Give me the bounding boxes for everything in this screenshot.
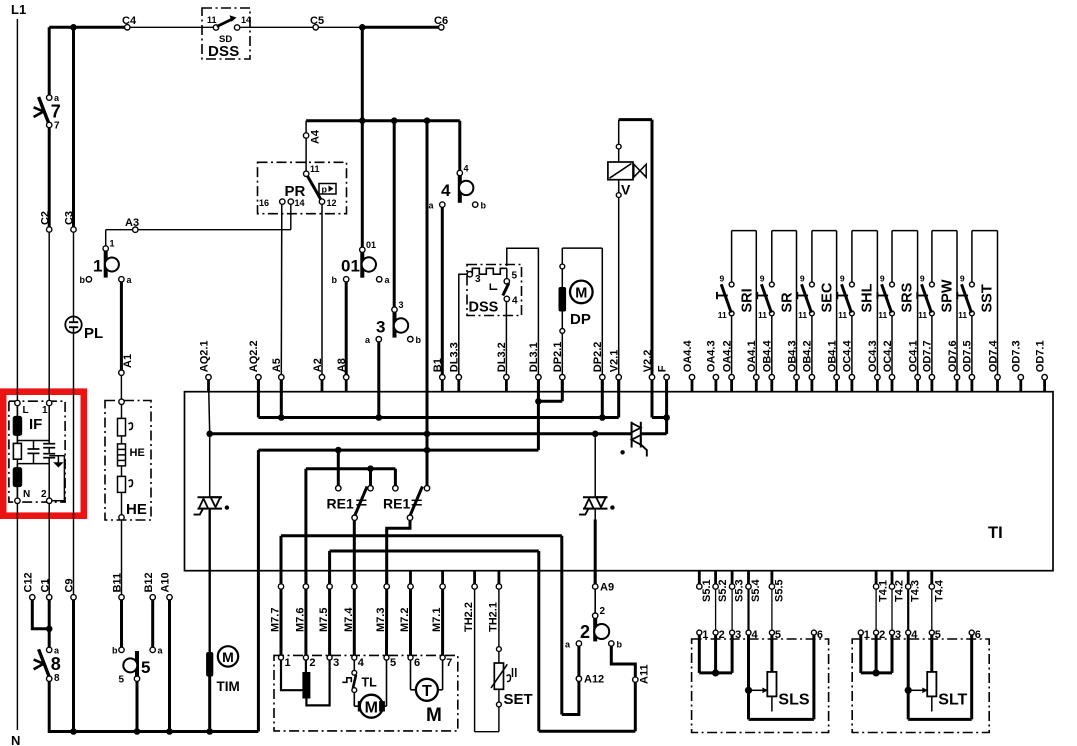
wire V2.1 drop	[617, 380, 620, 418]
svg-text:9: 9	[840, 274, 845, 284]
svg-text:5: 5	[390, 657, 396, 669]
junction SLT wiper	[905, 687, 912, 694]
node C3	[71, 227, 76, 232]
svg-text:A10: A10	[160, 572, 172, 592]
svg-text:9: 9	[720, 274, 725, 284]
svg-text:C4: C4	[122, 15, 137, 27]
svg-text:TI: TI	[988, 524, 1003, 542]
switch SPW	[917, 231, 957, 375]
svg-text:4: 4	[512, 296, 518, 307]
junction C/riser	[424, 447, 431, 454]
svg-text:SLT: SLT	[938, 692, 967, 709]
svg-text:OA4.4: OA4.4	[682, 340, 694, 373]
svg-text:DSS: DSS	[469, 300, 499, 316]
terminal OB4.2	[802, 340, 815, 391]
svg-text:b: b	[416, 335, 422, 345]
terminal DL3.1	[528, 342, 541, 391]
wire C5 riser	[361, 27, 364, 120]
svg-text:11: 11	[758, 310, 767, 320]
wire DSS1 to C5	[239, 26, 361, 28]
valve V	[608, 120, 652, 375]
wire M7.1 to pin7	[441, 589, 444, 655]
red annotation box	[3, 392, 84, 516]
svg-text:N: N	[23, 489, 30, 500]
terminal OD7.1	[1034, 340, 1047, 391]
svg-text:TL: TL	[362, 676, 378, 690]
svg-text:C5: C5	[310, 15, 324, 27]
svg-text:16: 16	[259, 198, 269, 208]
svg-text:b: b	[332, 275, 338, 285]
wire C1 column	[48, 600, 51, 648]
svg-text:9: 9	[920, 274, 925, 284]
SLT pin 6	[969, 629, 981, 641]
terminal V2.2	[642, 350, 655, 392]
wire D descender to switch2	[560, 536, 563, 715]
junction T/riser	[424, 117, 431, 124]
junction F/V2.2	[663, 414, 670, 421]
svg-text:b: b	[80, 275, 86, 285]
svg-text:1: 1	[110, 239, 115, 249]
wire switch01 b to A8	[345, 282, 348, 375]
terminal OD7.5	[962, 340, 975, 391]
wire PR12 to A2	[321, 204, 323, 375]
wire top feed C2-C4	[49, 26, 128, 29]
filter IF	[9, 400, 65, 503]
svg-text:3: 3	[376, 318, 385, 337]
M box pin 6	[408, 655, 420, 669]
wire switch2 a to A12	[577, 646, 580, 676]
terminal DL3.3	[449, 342, 462, 391]
wire D (M7.7 rail)	[281, 536, 562, 584]
svg-text:b: b	[617, 640, 623, 650]
terminal M7.1	[431, 571, 445, 632]
svg-text:T: T	[422, 683, 432, 700]
svg-text:T4.1: T4.1	[878, 580, 890, 602]
svg-text:DP: DP	[570, 311, 591, 328]
svg-text:PL: PL	[84, 325, 103, 342]
terminal OD7.7	[922, 340, 935, 391]
terminal TH2.2	[463, 571, 477, 632]
svg-text:OD7.3: OD7.3	[1011, 340, 1023, 372]
svg-text:F: F	[656, 365, 668, 372]
junction bus switch5	[134, 728, 141, 735]
wire riser to switch 01	[361, 121, 364, 248]
junction SLS bus	[712, 669, 719, 676]
terminal V2.1	[609, 350, 622, 392]
potentiometer SLS	[767, 635, 810, 712]
junction top C3	[70, 24, 77, 31]
junction DP2.1/DL3.1	[535, 398, 542, 405]
wire C3 to PL	[73, 232, 75, 322]
svg-text:2: 2	[41, 489, 47, 500]
wire G (M7.5 rail)	[330, 551, 539, 584]
wire C3 column upper	[72, 27, 75, 227]
SLT wiper arrow	[911, 688, 928, 694]
terminal S5.1	[697, 571, 713, 602]
terminal OB4.1	[826, 340, 839, 391]
junction bus A10	[166, 728, 173, 735]
wire DSS2 pin3 to DL3.3	[459, 274, 468, 374]
svg-text:RE1: RE1	[383, 496, 410, 512]
junction C1/C12	[46, 626, 53, 633]
node B11	[119, 595, 124, 600]
svg-text:7: 7	[446, 657, 452, 669]
svg-text:SR: SR	[780, 292, 796, 313]
svg-text:S5.3: S5.3	[734, 579, 746, 602]
wire B12 to switch5 a	[151, 600, 154, 648]
svg-text:S5.1: S5.1	[701, 579, 713, 602]
SLS wiper arrow	[752, 688, 768, 694]
wire F elbow to T3	[665, 432, 668, 435]
wire TH2.2 column	[474, 589, 476, 732]
terminal OA4.2	[721, 340, 734, 391]
node C2	[47, 227, 52, 232]
svg-text:T4.3: T4.3	[910, 580, 922, 602]
wire riser to switch 3	[393, 121, 396, 308]
terminal OA4.4	[682, 340, 695, 392]
filter IF cap C1	[28, 441, 40, 464]
relay PR (pressure)	[258, 162, 347, 213]
svg-text:RE1: RE1	[327, 496, 354, 512]
junction H/RE1	[367, 465, 374, 472]
wire M7.7 to pin1	[280, 589, 283, 655]
svg-text:SST: SST	[980, 284, 996, 312]
sensor SLS box	[692, 639, 829, 733]
svg-text:C9: C9	[64, 578, 76, 592]
wire C2 column lower	[48, 127, 51, 227]
SLS pin 4	[746, 629, 759, 641]
svg-text:S5.4: S5.4	[750, 578, 762, 602]
svg-text:11: 11	[918, 310, 927, 320]
svg-text:9: 9	[800, 274, 805, 284]
terminal OA4.1	[746, 340, 759, 391]
SLT pin 5	[929, 629, 941, 641]
triac T1	[194, 497, 229, 514]
terminal A8	[336, 358, 349, 392]
M box pin 2	[303, 655, 315, 669]
junction AQ2.1/B	[206, 431, 213, 438]
svg-text:b: b	[481, 201, 487, 211]
junction A9/B	[592, 431, 599, 438]
switch DSS2 (level)	[467, 265, 522, 316]
wire SLS feed pin2	[715, 589, 717, 630]
terminal A9	[593, 571, 615, 594]
svg-text:TH2.2: TH2.2	[463, 602, 475, 632]
SLT pin 4	[906, 629, 919, 641]
terminal M7.6	[294, 571, 308, 632]
svg-text:11: 11	[718, 310, 727, 320]
M box pin 5	[384, 655, 396, 669]
terminal T4.1	[873, 571, 889, 602]
switch 5 (selector)	[112, 646, 164, 686]
switch 7 (door contact)	[34, 93, 61, 132]
svg-text:6: 6	[975, 629, 981, 641]
wire A5 drop	[280, 380, 283, 418]
motor M winding	[281, 660, 330, 705]
wire T distribution	[306, 121, 460, 171]
junction SLT bus	[873, 669, 880, 676]
wire T1 to TIM	[208, 509, 210, 571]
wire to triac T1	[209, 434, 211, 497]
wire SLT feed pin3	[891, 589, 893, 630]
svg-text:SHL: SHL	[860, 283, 876, 312]
node B12	[150, 595, 155, 600]
wire M7.2 to pin6	[409, 589, 412, 655]
wire M7.6 to pin2	[304, 589, 307, 655]
svg-text:3: 3	[333, 657, 339, 669]
terminal TH2.1	[487, 571, 501, 632]
terminal S5.2	[713, 571, 729, 602]
wire G descender	[537, 551, 540, 731]
junction bus C9	[70, 728, 77, 735]
svg-text:2: 2	[580, 622, 590, 642]
terminal DL3.2	[496, 342, 509, 391]
wire SLT feed pin5	[931, 589, 933, 630]
filter IF link W2	[17, 463, 49, 465]
terminal OB4.3	[786, 340, 799, 391]
wire A4 riser	[305, 121, 307, 172]
svg-text:4: 4	[358, 657, 365, 669]
SLT pin 3	[890, 629, 902, 641]
svg-text:9: 9	[960, 274, 965, 284]
svg-text:9: 9	[880, 274, 885, 284]
svg-text:01: 01	[366, 240, 376, 250]
junction sw3/A	[376, 414, 383, 421]
wire C (neutral rail)	[258, 450, 538, 731]
wire switch4 a to B1	[441, 207, 444, 375]
svg-text:L1: L1	[11, 2, 26, 17]
motor unit M box	[274, 655, 458, 731]
switch 1 (program)	[80, 239, 133, 286]
wire M7.5 to pin3	[328, 589, 331, 655]
thermal cutout TL	[342, 660, 377, 706]
svg-text:PR: PR	[285, 183, 306, 200]
terminal B1	[432, 358, 445, 392]
terminal S5.4	[746, 571, 762, 602]
wire TH2.1 to SET	[498, 589, 500, 647]
terminal M7.5	[318, 571, 332, 632]
svg-text:A3: A3	[125, 217, 139, 229]
terminal OB4.4	[762, 340, 775, 392]
motor M rotor	[358, 660, 386, 718]
terminal AQ2.2	[248, 340, 261, 391]
terminal A2	[312, 358, 325, 392]
node A1	[119, 370, 124, 375]
junction riser/B	[424, 431, 431, 438]
svg-text:8: 8	[54, 673, 60, 684]
svg-text:11: 11	[878, 310, 887, 320]
svg-text:5: 5	[141, 658, 150, 677]
svg-text:11: 11	[958, 310, 967, 320]
svg-text:1: 1	[702, 629, 708, 641]
node A3	[133, 227, 138, 232]
node A11	[633, 677, 638, 682]
wire M7.4 to pin4	[353, 589, 356, 655]
svg-text:3: 3	[735, 629, 741, 641]
wire SLT feed pin2	[875, 589, 877, 630]
svg-text:N: N	[11, 733, 20, 746]
wire H (M7.6 rail)	[306, 469, 396, 584]
svg-text:B11: B11	[112, 573, 124, 593]
svg-text:1: 1	[285, 657, 291, 669]
terminal OC4.2	[882, 340, 895, 391]
switch SR	[757, 231, 796, 375]
svg-text:HE: HE	[126, 501, 147, 518]
SLS pin 3	[730, 629, 742, 641]
SLS pin 5	[769, 629, 781, 641]
wire A3	[106, 204, 291, 246]
wire bottom bus left	[49, 730, 258, 733]
terminal OD7.6	[947, 340, 960, 391]
svg-text:6: 6	[817, 629, 823, 641]
lamp PL	[65, 317, 103, 343]
svg-text:OA4.3: OA4.3	[706, 340, 718, 372]
wire SLS feed pin3	[731, 589, 733, 630]
wire SLS pin4 loop	[749, 635, 814, 719]
switch SST	[957, 231, 997, 375]
svg-text:B12: B12	[143, 572, 155, 592]
M box pin 7	[440, 655, 452, 669]
sensor SET	[491, 647, 533, 732]
triac T3	[621, 422, 647, 457]
motor TIM	[207, 571, 240, 732]
junction top C5/riser	[359, 24, 366, 31]
svg-text:TH2.1: TH2.1	[487, 602, 499, 632]
wire RE1 second to M7.3	[387, 520, 410, 584]
svg-text:3: 3	[475, 274, 481, 285]
wire A10 to bus	[168, 600, 171, 732]
wire PR16 to A5	[280, 204, 283, 375]
switch SRI	[717, 231, 756, 375]
svg-text:A12: A12	[584, 674, 604, 686]
wire A (AQ2.2 to V2.1)	[258, 380, 618, 418]
terminal OA4.3	[706, 340, 719, 391]
svg-text:01: 01	[341, 257, 360, 276]
terminal M7.2	[399, 571, 413, 632]
wire C9 to bus	[72, 600, 75, 732]
wire C12 jumper	[32, 600, 49, 629]
sensor SLT box	[852, 639, 989, 733]
wire C2 column upper	[48, 27, 51, 95]
node C12	[30, 595, 35, 600]
filter IF link W1	[17, 440, 49, 442]
wire C2 to IF pin1	[48, 232, 50, 401]
junction DP2.2/A	[599, 414, 606, 421]
junction C/RE1a	[335, 447, 342, 454]
wire PL to C9	[73, 327, 75, 595]
node C9	[71, 595, 76, 600]
node C5	[313, 25, 318, 30]
svg-text:M: M	[222, 649, 234, 665]
M box pin 3	[327, 655, 339, 669]
svg-text:3: 3	[895, 629, 901, 641]
svg-text:7: 7	[51, 102, 61, 122]
terminal M7.3	[375, 571, 389, 632]
svg-text:A11: A11	[639, 664, 651, 684]
svg-text:A4: A4	[310, 129, 322, 144]
wire TH loop bottom	[475, 731, 499, 733]
svg-text:S5.5: S5.5	[773, 579, 785, 602]
wire V2.2 drop to F	[652, 380, 667, 418]
wire DL3.1 column	[537, 380, 540, 450]
terminal M7.7	[270, 571, 284, 632]
svg-text:5: 5	[775, 629, 781, 641]
svg-text:1: 1	[93, 257, 102, 276]
node A12	[576, 676, 581, 681]
node C1	[47, 595, 52, 600]
junction bus TIM	[206, 728, 213, 735]
wire B (triac rail)	[210, 432, 632, 435]
svg-text:C12: C12	[23, 572, 35, 592]
svg-text:3: 3	[399, 300, 404, 310]
svg-text:T4.2: T4.2	[894, 580, 906, 602]
svg-text:AQ2.1: AQ2.1	[198, 340, 210, 372]
svg-text:4: 4	[464, 164, 469, 174]
wire switch3 a into box	[377, 342, 380, 418]
wire B11 to switch5 b	[120, 600, 123, 648]
filter IF ground	[49, 456, 64, 501]
wire C4 to DSS1	[128, 26, 214, 28]
svg-text:11: 11	[310, 164, 320, 174]
filter IF Y-caps	[43, 405, 55, 463]
svg-text:2: 2	[719, 629, 725, 641]
potentiometer SLT	[927, 635, 967, 712]
wire SLT internal bus	[861, 635, 892, 673]
motor DP (drain pump)	[559, 248, 602, 375]
wire SLT pin4 loop	[908, 635, 972, 719]
terminal OC4.3	[867, 340, 880, 391]
SLS pin 6	[811, 629, 823, 641]
svg-text:p: p	[322, 185, 328, 195]
junction A5/A	[278, 414, 285, 421]
svg-text:SEC: SEC	[820, 282, 836, 312]
triac T2	[579, 497, 614, 514]
wire bottom bus right	[539, 730, 636, 733]
relay RE1 first	[327, 452, 374, 520]
wire IF pin2 to C1	[48, 503, 50, 595]
svg-text:TIM: TIM	[217, 679, 240, 694]
wire switch5 to bus	[136, 681, 139, 731]
wire A1	[120, 282, 123, 371]
switch DSS1 (door, SD)	[202, 8, 251, 60]
wire DSS2 pin4 to DL3.2	[505, 301, 507, 374]
wire switch2 b to A11	[611, 646, 635, 677]
filter IF resistor	[13, 443, 21, 459]
svg-text:6: 6	[414, 657, 420, 669]
svg-text:5: 5	[512, 271, 518, 282]
SLT pin 1	[858, 629, 870, 641]
svg-text:9: 9	[760, 274, 765, 284]
terminal S5.3	[729, 571, 745, 602]
svg-text:5: 5	[118, 675, 124, 686]
svg-text:SPW: SPW	[940, 279, 956, 312]
svg-text:2: 2	[879, 629, 885, 641]
wire SLS internal bus	[699, 635, 732, 673]
wire DP2.1 entry link	[538, 380, 562, 402]
svg-text:5: 5	[935, 629, 941, 641]
wire SLS feed pin4	[747, 589, 749, 630]
terminal DP2.2	[592, 342, 605, 392]
terminal OC4.1	[907, 340, 920, 391]
svg-text:DSS: DSS	[208, 43, 239, 60]
terminal OC4.4	[842, 340, 855, 392]
heater HE	[105, 399, 151, 520]
SLS pin 2	[713, 629, 725, 641]
svg-text:SRI: SRI	[739, 288, 755, 312]
svg-text:1: 1	[42, 405, 48, 416]
svg-text:11: 11	[207, 15, 217, 25]
junction SLS wiper	[745, 687, 752, 694]
